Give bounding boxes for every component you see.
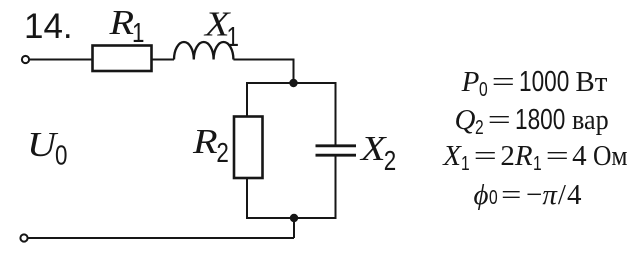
svg-text:2: 2	[216, 138, 228, 169]
capacitor X2 plate bottom	[316, 154, 357, 157]
node (top junction)	[289, 79, 297, 87]
resistor R2	[234, 117, 263, 179]
wire: bottom node down to bottom wire	[293, 218, 295, 238]
wire: down to X2	[335, 82, 337, 145]
wire: bottom rail of parallel section	[247, 217, 336, 219]
wire: top rail of parallel section	[247, 82, 336, 84]
node (bottom junction)	[290, 214, 298, 222]
svg-text:1: 1	[132, 18, 144, 49]
resistor R1	[93, 46, 152, 72]
terminal (bottom left)	[20, 234, 27, 241]
wire: R2 to bottom rail	[246, 178, 248, 219]
wire: X2 to bottom rail	[335, 155, 337, 219]
inductor X1	[174, 42, 233, 60]
svg-text:0: 0	[55, 140, 67, 171]
wire: bottom wire to terminal	[28, 237, 294, 239]
wire: top-left terminal to R1	[29, 59, 92, 61]
wire: X1 to top node	[233, 60, 293, 84]
svg-text:2: 2	[384, 146, 396, 177]
svg-text:1: 1	[227, 22, 239, 53]
given values text block	[414, 68, 641, 97]
capacitor X2 plate top	[316, 144, 357, 147]
wire: R1 to X1	[152, 59, 175, 61]
wire: down to R2	[246, 82, 248, 117]
svg-text:14.: 14.	[24, 7, 73, 46]
svg-text:R: R	[108, 3, 134, 42]
terminal (top left)	[22, 56, 29, 63]
svg-text:R: R	[192, 122, 218, 161]
